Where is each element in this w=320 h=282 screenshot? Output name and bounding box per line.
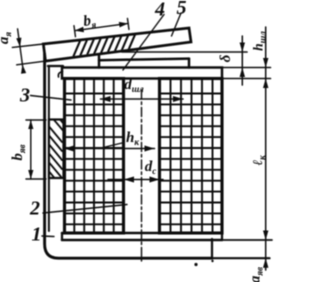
right grid winding block [160,79,223,234]
label b_yav [10,144,27,160]
hook mark [58,72,62,78]
bottom plate [62,232,222,235]
label l_k [250,155,267,166]
bottom plate extension line [222,239,272,241]
leader 3 [31,96,72,101]
dimension b_ya [74,26,75,37]
label a_yav bottom right [248,267,265,282]
dashed centerline of channel [141,90,143,261]
svg-text:5: 5 [177,0,187,19]
frame right end vertical [211,239,213,258]
leader 4 [123,15,164,71]
extension line delta top (band bottom level) [122,51,247,53]
dots [194,263,197,266]
inner wall line [48,66,50,231]
top plate item 4 [62,68,222,79]
wire frame clamp item 1 left vertical [45,54,212,258]
h_k dimension [64,148,155,150]
d_shl dimension [101,98,184,100]
leader 5 [172,13,182,36]
band bar outline [43,24,191,61]
svg-text:3: 3 [19,85,30,107]
label h_shl [250,31,267,51]
h_shl and l_k chain [265,27,267,270]
svg-text:δ: δ [218,54,234,62]
hatched block (pole body side) [42,110,68,196]
a_ya dimension line [18,29,23,67]
svg-text:2: 2 [29,198,40,220]
delta dimension chain [241,36,243,85]
b_yav dimension left [26,119,46,121]
slanted band bar group (items 5 and hatched band) [9,0,192,74]
extension line plate bottom to right [222,78,271,80]
leader 2 [43,205,127,214]
label delta [218,54,234,62]
label a_ya rotated [0,32,13,45]
left grid winding block [65,79,124,234]
d_c dimension [108,179,163,181]
wire frame bottom extension [212,257,270,259]
svg-text:4: 4 [154,0,165,21]
dimension a_ya extensions [17,61,46,65]
ridge on plate [98,54,101,67]
svg-text:1: 1 [32,224,42,246]
leader 1 [42,235,54,238]
extension line plate top to right [222,67,271,69]
